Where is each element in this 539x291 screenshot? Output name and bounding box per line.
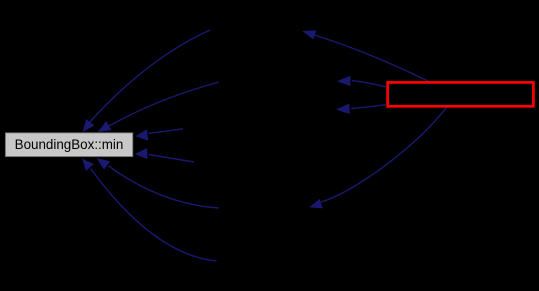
node BoundingBox::min (grey current node) xyxy=(5,133,132,157)
wire edge N1 to min xyxy=(87,30,211,126)
arrowhead into min top-right xyxy=(98,121,112,132)
wire edge N7 to min xyxy=(91,169,217,262)
wire edge R to N1 xyxy=(313,35,429,82)
arrowhead into min bottom-right xyxy=(97,158,111,170)
arrowhead into min bottom-left xyxy=(82,159,94,171)
arrowhead into min top-left xyxy=(83,119,95,132)
arrowhead into min right-lower xyxy=(135,148,148,159)
arrowhead into N2 xyxy=(337,76,351,86)
svg-text:BoundingBox::min: BoundingBox::min xyxy=(15,137,124,152)
arrowhead into N6 xyxy=(309,199,322,209)
wire edge N2 to min xyxy=(106,82,220,128)
wire edge N5 to min xyxy=(149,155,194,163)
arrowhead into N3 xyxy=(336,104,350,114)
wire edge R to N3 xyxy=(351,105,386,109)
wire edge R to N2 xyxy=(352,81,386,87)
arrowhead into N1 xyxy=(302,30,316,39)
wire edge N4 to min xyxy=(149,129,184,134)
wire edge R to N6 xyxy=(321,107,447,202)
node red-outlined (truncated node) xyxy=(388,82,534,106)
wire edge N6 to min xyxy=(109,166,219,208)
arrowhead into min right-upper xyxy=(135,129,148,140)
